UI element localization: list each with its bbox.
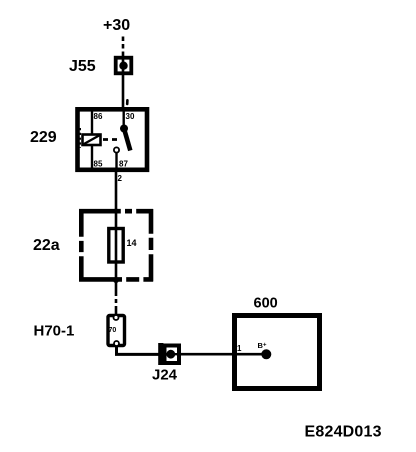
wire: dashed middle part xyxy=(115,292,118,307)
wire: fuse holder to H70-1 solid part xyxy=(115,281,118,292)
svg-text:229: 229 xyxy=(30,129,57,146)
relay switch arm xyxy=(124,128,131,151)
relay coil supply wire 86-85 xyxy=(91,109,93,169)
fuse holder 22a (dashed box) xyxy=(79,209,153,282)
relay pin 30 lead xyxy=(122,109,124,127)
svg-text:86: 86 xyxy=(94,112,103,121)
svg-text:J55: J55 xyxy=(69,58,96,75)
relay 229 outline xyxy=(78,109,148,170)
svg-text:22a: 22a xyxy=(33,237,60,254)
connector H70-1 xyxy=(108,315,125,346)
svg-text:H70-1: H70-1 xyxy=(34,323,75,340)
pin 1 tick above relay xyxy=(126,99,129,105)
wire: J24 to battery B+ xyxy=(181,353,265,356)
junction J24 xyxy=(158,343,180,365)
relay pin 87 lead xyxy=(115,153,117,169)
relay coil xyxy=(83,135,101,146)
wire through fuse box xyxy=(115,212,118,281)
wire: J55 to relay pin 30 xyxy=(122,73,125,108)
svg-text:14: 14 xyxy=(127,238,137,248)
svg-text:70: 70 xyxy=(109,327,117,334)
wire: +30 down to J55 (dashed) xyxy=(122,37,125,57)
coil hatch marks on left border xyxy=(78,128,81,148)
svg-text:30: 30 xyxy=(126,112,135,121)
svg-text:+: + xyxy=(263,343,267,349)
junction dot at 22a box bottom xyxy=(113,277,119,283)
svg-text:600: 600 xyxy=(254,296,278,312)
dashed mechanical link coil to contact xyxy=(103,138,121,141)
wire: solid to connector xyxy=(115,307,118,315)
svg-text:2: 2 xyxy=(118,174,123,183)
battery 600 box xyxy=(235,316,320,389)
svg-text:1: 1 xyxy=(237,344,242,353)
junction dot at 22a box top xyxy=(113,208,118,213)
node B+ dot xyxy=(261,349,271,359)
svg-text:+30: +30 xyxy=(103,17,130,34)
svg-text:J24: J24 xyxy=(152,367,178,384)
wire: relay to fuse holder xyxy=(115,172,118,213)
relay contact 87 terminal circle xyxy=(114,147,119,152)
fuse 14 body xyxy=(109,229,123,263)
svg-text:E824D013: E824D013 xyxy=(305,424,382,441)
wire: H70-1 down and right to J24 xyxy=(117,346,159,354)
svg-text:87: 87 xyxy=(119,160,128,169)
relay contact pivot dot xyxy=(120,125,128,133)
svg-text:85: 85 xyxy=(94,160,103,169)
junction J55 xyxy=(116,57,132,74)
